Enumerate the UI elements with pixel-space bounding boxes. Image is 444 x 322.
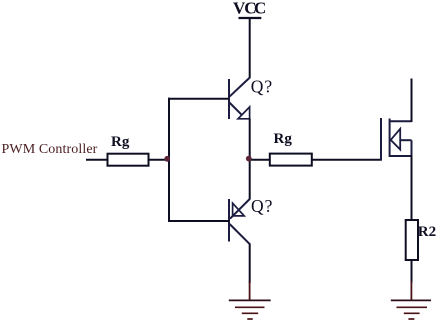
wire base rail to Q1 base [168, 98, 229, 100]
power symbol VCC bar [239, 17, 262, 19]
transistor Q2 bottom (PNP) [229, 199, 250, 244]
svg-text:Q?: Q? [251, 196, 273, 216]
wire base rail vertical [168, 98, 170, 222]
resistor R2 [406, 220, 418, 260]
resistor Rg (gate, R_g2) [270, 154, 312, 166]
node: base rail junction dot [164, 156, 170, 162]
ground symbol (below R2) [391, 281, 431, 319]
svg-text:VCC: VCC [233, 0, 266, 17]
wire VCC bar to Q1 collector [249, 18, 251, 78]
svg-text:PWM Controller: PWM Controller [2, 142, 98, 157]
ground symbol (below Q2) [229, 281, 271, 319]
wire Q1 emitter to output node [249, 119, 251, 161]
svg-text:Q?: Q? [251, 77, 273, 97]
wire PWM Controller to Rg1 [86, 159, 108, 161]
wire R2 to ground [411, 260, 413, 283]
wire Q2 collector to ground [249, 244, 251, 284]
svg-text:R2: R2 [418, 224, 436, 240]
wire Rg2 to MOSFET gate [312, 159, 382, 161]
wire output node to Rg2 [249, 159, 271, 161]
transistor Q1 top (NPN) [229, 78, 250, 119]
wire MOSFET source to R2 [411, 155, 413, 220]
wire MOSFET drain stub [411, 79, 413, 123]
wire base rail to Q2 base [168, 220, 229, 222]
resistor Rg (input, R_g1) [108, 154, 149, 166]
node: driver output junction dot [246, 156, 252, 162]
wire Rg1 to base node [149, 159, 171, 161]
svg-text:Rg: Rg [274, 131, 293, 147]
wire output node to Q2 emitter [249, 158, 251, 200]
svg-text:Rg: Rg [111, 134, 130, 150]
transistor Q3 (N-channel MOSFET) [381, 118, 412, 161]
